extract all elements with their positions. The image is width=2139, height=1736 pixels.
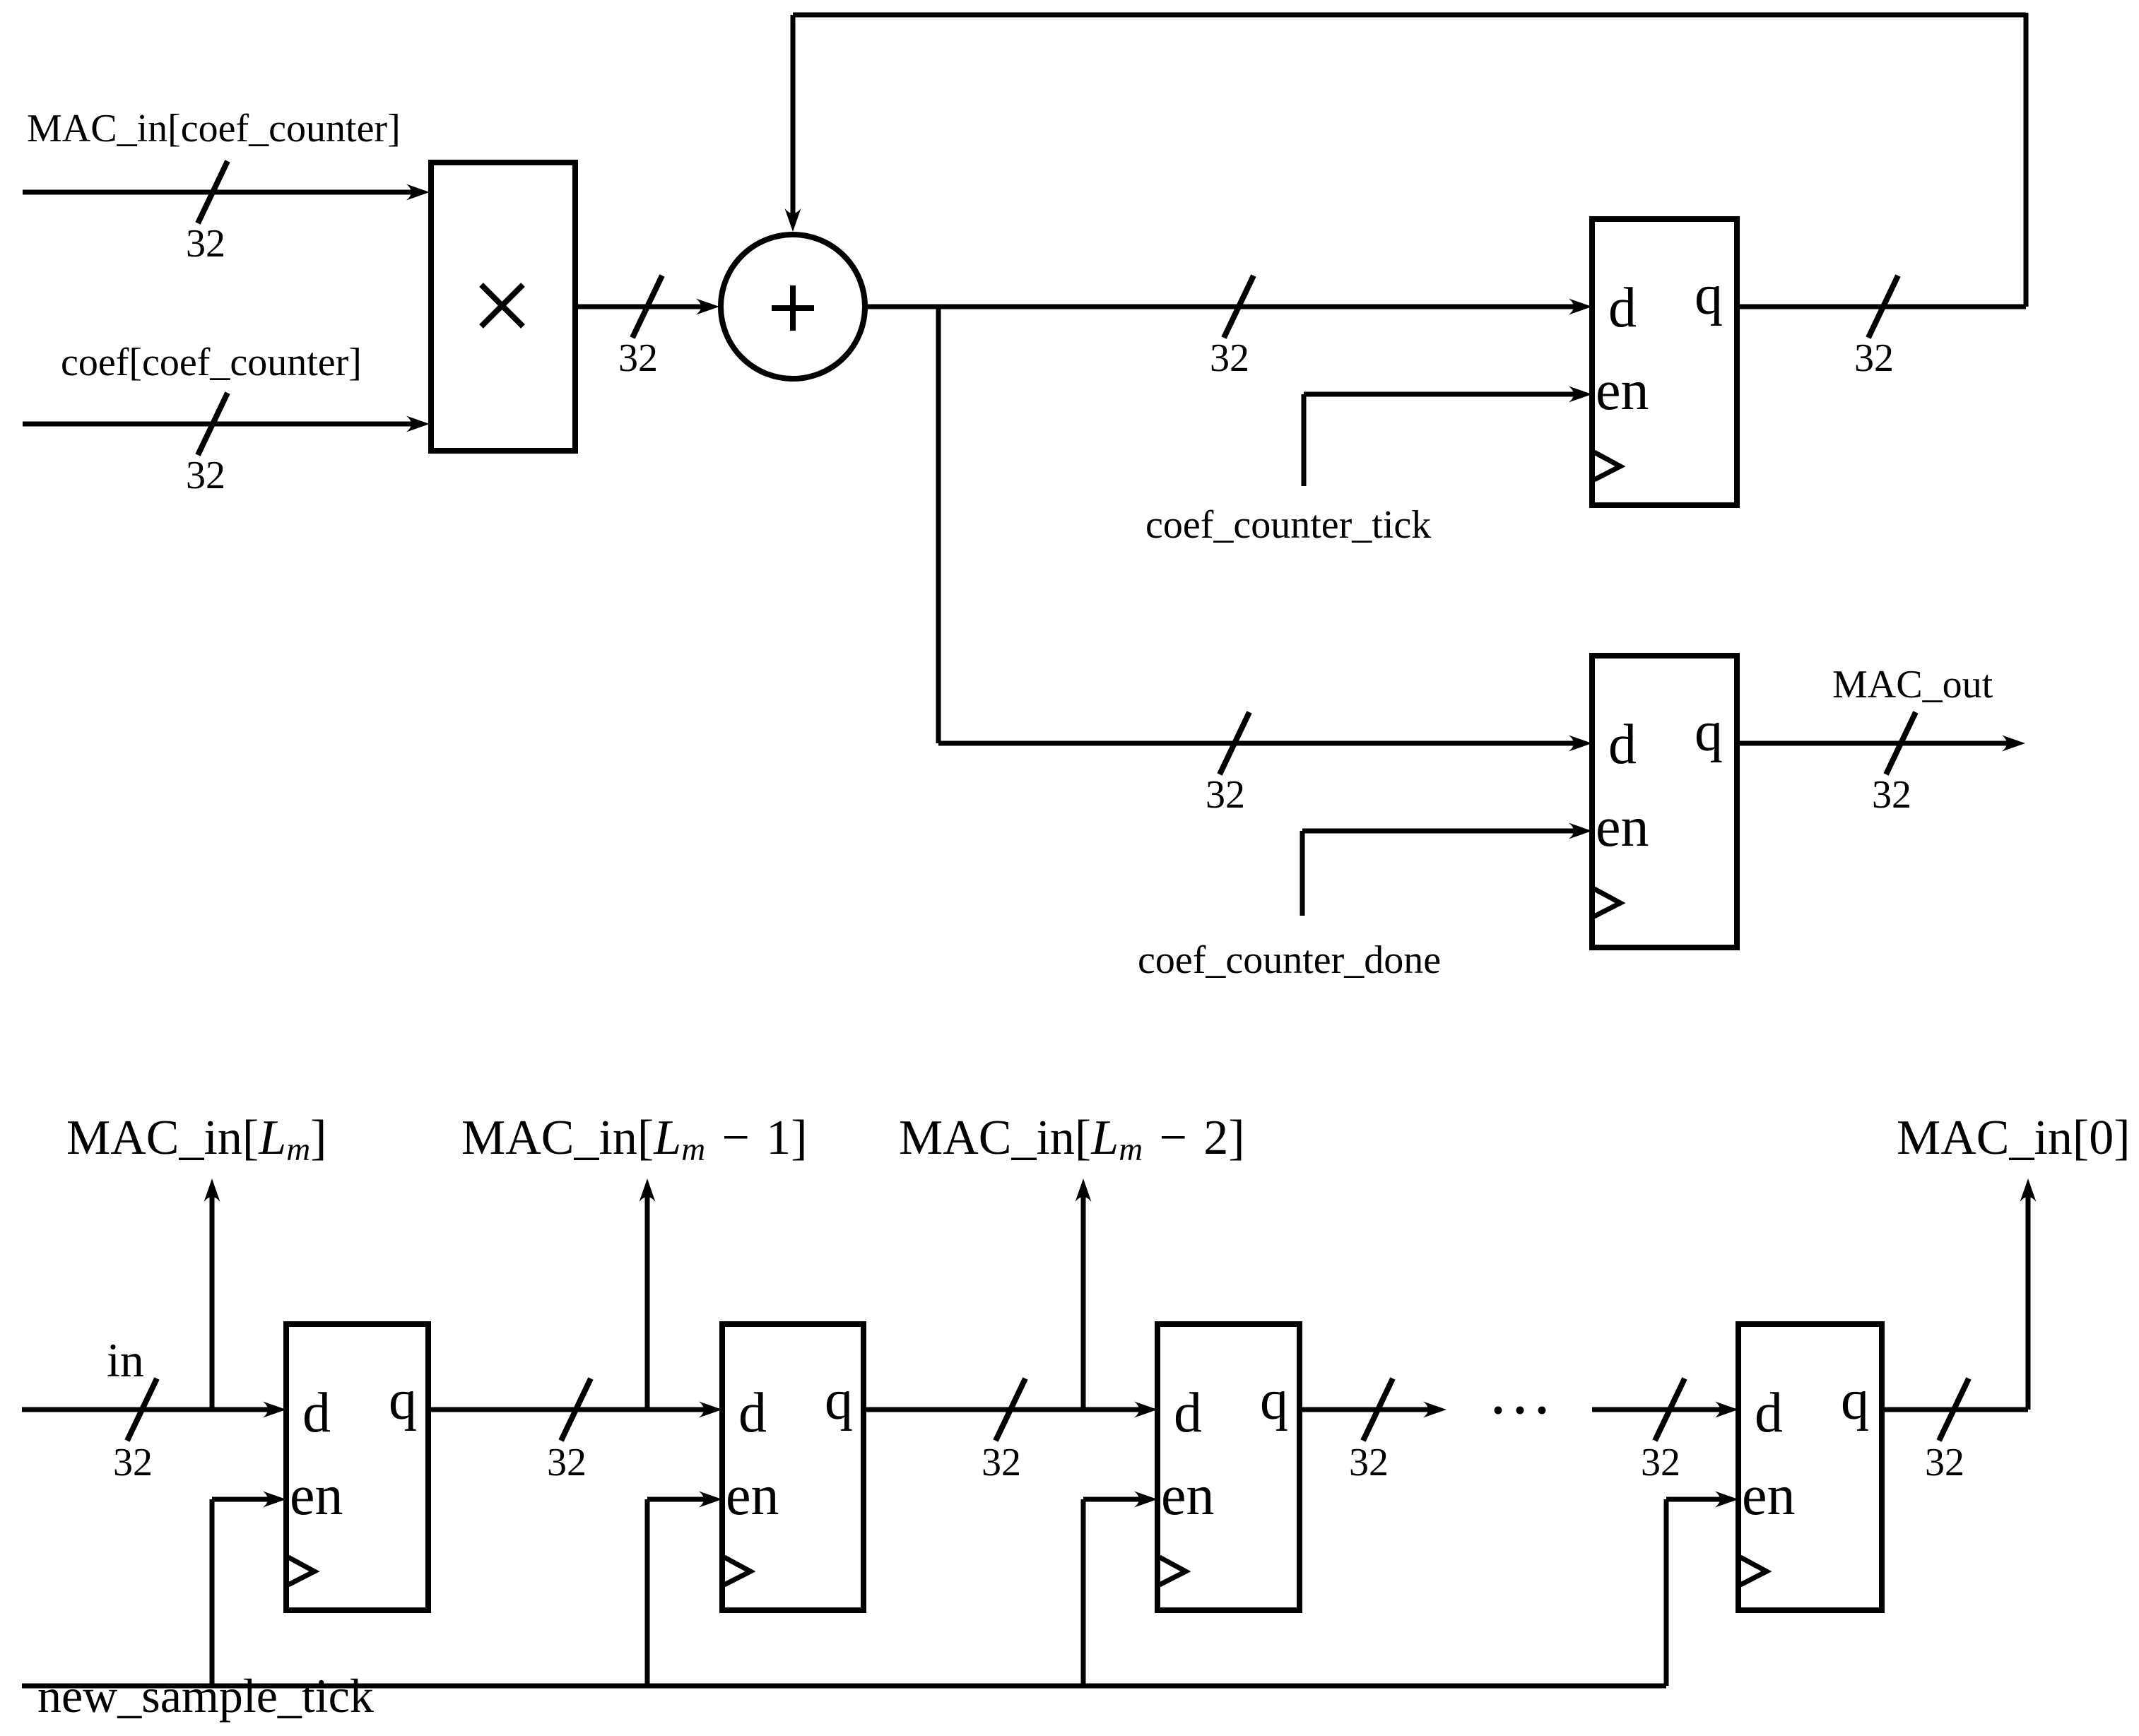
- bus-width slash on coef wire: [198, 393, 228, 455]
- bus width label 32: [113, 1441, 153, 1484]
- bus-width slash on Z3 output wire: [1363, 1378, 1393, 1441]
- svg-text:32: 32: [1854, 336, 1894, 380]
- net label coef[coef_counter]: [61, 341, 362, 384]
- wire new_sample_tick riser to Z1 en: [212, 1492, 286, 1687]
- svg-text:MAC_in[0]: MAC_in[0]: [1897, 1111, 2131, 1165]
- register Zn box: [1738, 1324, 1882, 1610]
- Z1 pin label q: [389, 1369, 417, 1431]
- bus-width slash on MAC_in[0] wire: [1939, 1378, 1969, 1441]
- bus width label 32: [1349, 1441, 1389, 1484]
- register Z1 box: [286, 1324, 428, 1610]
- svg-text:d: d: [302, 1382, 331, 1444]
- svg-text:32: 32: [186, 222, 225, 266]
- wire multiplier output to adder: [575, 299, 719, 315]
- adder (plus circle): [721, 235, 865, 379]
- wire in to register Z1 d input: [22, 1402, 286, 1418]
- Zn clock input chevron: [1740, 1557, 1767, 1585]
- bus width label 32: [1925, 1441, 1964, 1484]
- svg-text:en: en: [1161, 1465, 1215, 1527]
- net label MAC_in[0]: [1897, 1111, 2131, 1165]
- R1 clock input chevron: [1594, 452, 1620, 480]
- wire R1 q output (feedback): [1737, 305, 2026, 309]
- svg-text:d: d: [1608, 714, 1637, 776]
- wire coef[coef_counter] into multiplier: [23, 416, 430, 432]
- net label new_sample_tick: [37, 1669, 374, 1723]
- Z2 pin label q: [825, 1369, 853, 1431]
- svg-text:en: en: [1596, 360, 1649, 422]
- multiplier block: [431, 163, 575, 451]
- Z3 pin label en: [1161, 1465, 1215, 1527]
- wire new_sample_tick riser to Z2 en: [647, 1492, 722, 1687]
- net label MAC_out: [1832, 663, 1993, 707]
- net label coef_counter_tick: [1145, 503, 1431, 547]
- svg-text:en: en: [1596, 796, 1649, 858]
- R1 pin label en: [1596, 360, 1649, 422]
- svg-text:q: q: [825, 1369, 853, 1431]
- net label in: [107, 1333, 144, 1387]
- Z3 clock input chevron: [1160, 1557, 1186, 1585]
- svg-text:MAC_out: MAC_out: [1832, 663, 1993, 707]
- ellipsis dots: [1495, 1407, 1546, 1415]
- Z2 pin label d: [738, 1382, 767, 1444]
- R1 pin label q: [1695, 264, 1723, 326]
- svg-text:MAC_in[coef_counter]: MAC_in[coef_counter]: [27, 107, 401, 150]
- svg-text:in: in: [107, 1333, 144, 1387]
- svg-text:q: q: [389, 1369, 417, 1431]
- wire MAC_in[coef_counter] into multiplier: [23, 184, 430, 201]
- svg-text:coef_counter_done: coef_counter_done: [1138, 938, 1441, 982]
- Z2 pin label en: [726, 1465, 779, 1527]
- bus width label 32: [186, 222, 225, 266]
- bus width label 32: [982, 1441, 1021, 1484]
- wire new_sample_tick riser to Zn en: [1666, 1492, 1738, 1687]
- R2 pin label d: [1608, 714, 1637, 776]
- tap wire up to MAC_in[Lm - 2]: [1076, 1179, 1092, 1410]
- svg-text:32: 32: [1206, 773, 1245, 817]
- svg-text:coef[coef_counter]: coef[coef_counter]: [61, 341, 362, 384]
- wire Z3 q towards ellipsis: [1300, 1402, 1446, 1418]
- bus-width slash on MAC_in wire: [198, 161, 228, 223]
- bus width label 32: [1206, 773, 1245, 817]
- wire Z2 q to Z3 d: [864, 1402, 1157, 1418]
- Zn pin label q: [1841, 1369, 1869, 1431]
- svg-text:d: d: [1755, 1382, 1783, 1444]
- Zn pin label en: [1742, 1465, 1796, 1527]
- bus-width slash on accumulator wire: [1224, 276, 1254, 338]
- Zn pin label d: [1755, 1382, 1783, 1444]
- net label MAC_in[coef_counter]: [27, 107, 401, 150]
- register Z3 box: [1157, 1324, 1300, 1610]
- svg-text:q: q: [1841, 1369, 1869, 1431]
- svg-text:d: d: [1174, 1382, 1202, 1444]
- wire R2 q output MAC_out: [1737, 736, 2025, 752]
- Z1 pin label d: [302, 1382, 331, 1444]
- svg-text:32: 32: [1349, 1441, 1389, 1484]
- tap wire up to MAC_in[Lm]: [204, 1179, 220, 1410]
- svg-text:en: en: [1742, 1465, 1796, 1527]
- register Z2 box: [722, 1324, 864, 1610]
- svg-text:32: 32: [1872, 773, 1911, 817]
- net label MAC_in[Lm]: [66, 1111, 326, 1168]
- Z1 pin label en: [290, 1465, 343, 1527]
- svg-text:MAC_in[Lm]: MAC_in[Lm]: [66, 1111, 326, 1168]
- Z3 pin label d: [1174, 1382, 1202, 1444]
- bus width label 32: [547, 1441, 587, 1484]
- Z1 clock input chevron: [288, 1557, 314, 1585]
- junction: accumulator branch down to R2: [936, 307, 941, 743]
- wire coef_counter_tick to R1 en: [1304, 386, 1592, 487]
- svg-text:new_sample_tick: new_sample_tick: [37, 1669, 374, 1723]
- svg-text:q: q: [1695, 264, 1723, 326]
- wire adder output to register R1 d input: [868, 299, 1592, 315]
- new_sample_tick bus wire: [22, 1684, 1666, 1689]
- bus width label 32: [1641, 1441, 1680, 1484]
- bus-width slash on feedback wire: [1868, 276, 1898, 338]
- net label MAC_in[Lm - 1]: [461, 1111, 808, 1168]
- svg-text:32: 32: [1925, 1441, 1964, 1484]
- net label MAC_in[Lm - 2]: [899, 1111, 1245, 1168]
- svg-text:coef_counter_tick: coef_counter_tick: [1145, 503, 1431, 547]
- tap wire up to MAC_in[Lm - 1]: [640, 1179, 656, 1410]
- svg-text:32: 32: [113, 1441, 153, 1484]
- svg-text:q: q: [1695, 701, 1723, 763]
- svg-text:32: 32: [186, 454, 225, 497]
- svg-text:q: q: [1260, 1369, 1288, 1431]
- R2 clock input chevron: [1594, 889, 1620, 916]
- svg-text:32: 32: [1210, 336, 1249, 380]
- bus width label 32: [1210, 336, 1249, 380]
- bus-width slash on Z1-Z2 wire: [561, 1378, 591, 1441]
- register R2 box: [1592, 656, 1737, 947]
- feedback wire down into adder: [785, 15, 801, 232]
- feedback wire right vertical segment: [2024, 13, 2029, 307]
- R2 pin label en: [1596, 796, 1649, 858]
- net label coef_counter_done: [1138, 938, 1441, 982]
- bus-width slash on in wire: [127, 1378, 157, 1441]
- svg-text:d: d: [1608, 277, 1637, 339]
- svg-text:32: 32: [547, 1441, 587, 1484]
- bus width label 32: [618, 336, 658, 380]
- svg-text:en: en: [726, 1465, 779, 1527]
- bus-width slash on R2 d wire: [1220, 712, 1249, 774]
- Z2 clock input chevron: [724, 1557, 750, 1585]
- svg-text:32: 32: [982, 1441, 1021, 1484]
- svg-text:d: d: [738, 1382, 767, 1444]
- bus width label 32: [1854, 336, 1894, 380]
- wire Z1 q to Z2 d: [428, 1402, 722, 1418]
- R2 pin label q: [1695, 701, 1723, 763]
- feedback wire top horizontal segment: [793, 13, 2026, 18]
- R1 pin label d: [1608, 277, 1637, 339]
- svg-text:32: 32: [1641, 1441, 1680, 1484]
- bus-width slash on Zn d wire: [1655, 1378, 1685, 1441]
- register R1 box: [1592, 219, 1737, 505]
- svg-text:32: 32: [618, 336, 658, 380]
- svg-text:MAC_in[Lm − 2]: MAC_in[Lm − 2]: [899, 1111, 1245, 1168]
- wire new_sample_tick riser to Z3 en: [1083, 1492, 1157, 1687]
- svg-text:en: en: [290, 1465, 343, 1527]
- Z3 pin label q: [1260, 1369, 1288, 1431]
- bus width label 32: [186, 454, 225, 497]
- svg-text:MAC_in[Lm − 1]: MAC_in[Lm − 1]: [461, 1111, 808, 1168]
- bus-width slash on MAC_out wire: [1886, 712, 1916, 774]
- bus-width slash on Z2-Z3 wire: [996, 1378, 1025, 1441]
- wire coef_counter_done to R2 en: [1302, 823, 1592, 916]
- bus width label 32: [1872, 773, 1911, 817]
- wire ellipsis to Zn d: [1592, 1402, 1738, 1418]
- bus-width slash on product wire: [632, 276, 662, 338]
- wire Zn q up to MAC_in[0]: [1882, 1179, 2037, 1410]
- wire accumulator branch to R2 d input: [938, 736, 1592, 752]
